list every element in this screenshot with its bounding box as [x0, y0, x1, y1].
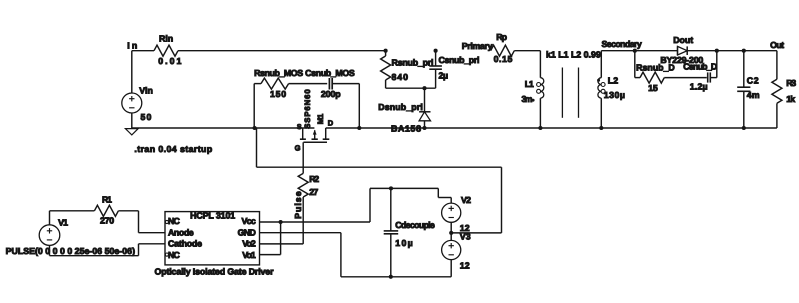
- wire Csnub_D to return leg: [711, 77, 717, 79]
- svg-text:V3: V3: [460, 231, 471, 241]
- svg-text:150: 150: [270, 89, 286, 99]
- junction dot snubber/ground rail: [253, 126, 257, 130]
- wire Vcc riser: [370, 188, 438, 222]
- junction dot Dsnub_pri at rail: [422, 126, 426, 130]
- resistor Rsnub_D: [635, 62, 675, 93]
- resistor Rin: [154, 34, 181, 67]
- svg-text:S: S: [297, 124, 302, 131]
- svg-text:V1: V1: [58, 218, 68, 228]
- junction dot Csnub_pri top: [434, 49, 438, 53]
- transformer core: [562, 68, 578, 118]
- svg-text:R2: R2: [309, 174, 319, 184]
- junction dot snubD left: [633, 49, 637, 53]
- pin Anode: [168, 227, 194, 237]
- wire Rin to primary snubber node: [178, 50, 386, 52]
- svg-text:Cathode: Cathode: [168, 239, 202, 249]
- svg-text:Csnub_MOS: Csnub_MOS: [305, 68, 355, 78]
- voltage source V3: [442, 231, 471, 276]
- wire Vo1 tie: [260, 222, 281, 255]
- svg-text:In: In: [127, 41, 137, 51]
- junction dot snubD right: [715, 49, 719, 53]
- wire rail down-leg: [256, 128, 258, 167]
- pin Vo1: [242, 250, 256, 260]
- svg-text:Vo2: Vo2: [242, 239, 256, 249]
- junction dot Rsnub_pri top: [384, 49, 388, 53]
- wire clamp bottom: [386, 87, 436, 89]
- inductor L2: [597, 75, 625, 100]
- wire bottom rail left (source side): [132, 127, 315, 129]
- wire snubD right leg: [716, 51, 718, 78]
- svg-text:Vcc: Vcc: [242, 216, 256, 226]
- wire GND run: [260, 233, 341, 277]
- junction dot Cdecouple bottom: [389, 275, 393, 279]
- svg-text:2µ: 2µ: [439, 71, 449, 81]
- junction dot C2 bottom: [742, 126, 746, 130]
- wire long mid reference: [257, 166, 502, 168]
- svg-text:Cdecouple: Cdecouple: [395, 220, 435, 230]
- voltage source V1: [39, 218, 68, 246]
- wire Vcc jog to V2: [438, 188, 451, 197]
- wire Vin top to Rin: [132, 50, 154, 52]
- svg-text:0.15: 0.15: [494, 54, 513, 64]
- svg-text:SSP6N60: SSP6N60: [303, 89, 312, 129]
- capacitor Cdecouple: [384, 188, 435, 276]
- svg-text:Csnub_pri: Csnub_pri: [439, 55, 480, 65]
- capacitor C2: [737, 51, 760, 128]
- wire driver bottom rail: [341, 276, 451, 278]
- pin Vo2: [242, 239, 256, 249]
- svg-text:Rsnub_MOS: Rsnub_MOS: [254, 68, 303, 78]
- wire Rsnub_MOS to Csnub_MOS: [289, 83, 328, 85]
- wire V1 bottom stub: [49, 245, 51, 255]
- wire V1 top to R1: [50, 210, 95, 212]
- pin Vcc: [242, 216, 256, 226]
- wire gate lead: [302, 142, 304, 173]
- caption optically isolated gate driver: [155, 266, 275, 276]
- wire V1 to Cathode: [50, 244, 166, 256]
- svg-text:Rin: Rin: [159, 34, 173, 44]
- svg-text:12: 12: [460, 260, 470, 270]
- diode Dsnub_pri BA158: [378, 88, 430, 133]
- svg-text:Vin: Vin: [139, 85, 153, 95]
- svg-text:270: 270: [100, 216, 114, 226]
- node Secondary label: [602, 39, 642, 49]
- svg-text:NC: NC: [168, 250, 180, 260]
- resistor Rsnub_MOS: [254, 68, 303, 99]
- svg-text:k1 L1 L2 0.99: k1 L1 L2 0.99: [546, 50, 601, 60]
- wire Rsnub_D to Csnub_D: [664, 77, 707, 79]
- pin Cathode: [168, 239, 202, 249]
- inductor L1: [522, 78, 544, 104]
- diode Dout BY229-200: [660, 35, 703, 65]
- node Out label: [770, 40, 784, 50]
- svg-text:3m: 3m: [522, 94, 533, 104]
- wire snubD left leg: [634, 51, 636, 78]
- junction dot L2 at rail: [599, 126, 603, 130]
- spice directive .tran: [134, 144, 212, 154]
- svg-text:Anode: Anode: [168, 227, 194, 237]
- voltage source Vin: [122, 85, 153, 122]
- svg-text:HCPL 3101: HCPL 3101: [190, 210, 235, 220]
- svg-text:Secondary: Secondary: [602, 39, 642, 49]
- svg-text:Rp: Rp: [496, 32, 507, 42]
- wire snubber left leg: [253, 84, 255, 128]
- svg-text:Out: Out: [770, 40, 784, 50]
- svg-text:PULSE(0 0 0 0 0 25e-06 50e-06): PULSE(0 0 0 0 0 25e-06 50e-06): [6, 246, 135, 256]
- svg-text:Rsnub_D: Rsnub_D: [636, 62, 675, 72]
- op-amp U1 HCPL 3101 box: [165, 210, 260, 265]
- pin GND: [238, 227, 256, 237]
- wire Csnub_MOS to drain leg: [333, 83, 359, 85]
- svg-text:Csnub_D: Csnub_D: [683, 61, 717, 71]
- svg-text:50: 50: [141, 112, 152, 122]
- wire L2 bottom: [600, 98, 602, 128]
- value text PULSE: [6, 246, 135, 256]
- svg-text:D: D: [328, 119, 334, 128]
- wire L2 top: [600, 51, 602, 78]
- svg-text:130µ: 130µ: [604, 90, 625, 100]
- voltage source V2: [442, 195, 471, 233]
- capacitor Csnub_MOS: [305, 68, 355, 99]
- resistor R2: [298, 173, 319, 197]
- wire Vcc rail: [260, 221, 371, 223]
- svg-text:1k: 1k: [786, 94, 795, 104]
- junction dot clamp diode top: [422, 86, 426, 90]
- svg-text:15: 15: [648, 83, 658, 93]
- net label Pulse: [293, 191, 303, 219]
- svg-text:Vo1: Vo1: [242, 250, 256, 260]
- node Primary label: [462, 41, 493, 51]
- svg-text:Dout: Dout: [673, 35, 693, 45]
- junction dot V2 V3 midpoint: [449, 231, 453, 235]
- resistor R3: [772, 51, 796, 128]
- svg-text:Rsnub_pri: Rsnub_pri: [392, 58, 434, 68]
- svg-text:BA158: BA158: [391, 123, 421, 133]
- pin NC top: [165, 216, 180, 226]
- wire Dout cathode rail: [687, 50, 777, 52]
- resistor Rsnub_pri: [381, 51, 434, 88]
- svg-text:200p: 200p: [321, 89, 341, 99]
- junction dot Cdecouple top: [389, 186, 393, 190]
- capacitor Csnub_D: [683, 61, 717, 91]
- node In label: [127, 41, 137, 51]
- svg-text:V2: V2: [461, 195, 471, 205]
- svg-text:.tran 0.04 startup: .tran 0.04 startup: [134, 144, 212, 154]
- resistor Rp: [491, 32, 515, 64]
- svg-text:NC: NC: [168, 216, 180, 226]
- wire Vin top stub: [131, 51, 133, 93]
- transistor M1 SSP6N60: [295, 89, 334, 153]
- svg-text:R3: R3: [786, 78, 796, 88]
- junction dot Vcc Vo1: [279, 220, 283, 224]
- svg-text:4m: 4m: [747, 90, 760, 100]
- wire R1 to Anode: [118, 211, 165, 233]
- junction dot L1 at rail: [538, 126, 542, 130]
- wire Rp to L1: [514, 51, 540, 78]
- svg-text:27: 27: [309, 187, 318, 197]
- svg-text:Optically Isolated Gate Driver: Optically Isolated Gate Driver: [155, 266, 275, 276]
- wire to V2 V3 midpoint: [451, 232, 501, 234]
- svg-text:1.2µ: 1.2µ: [690, 81, 708, 91]
- svg-text:L2: L2: [608, 75, 618, 85]
- capacitor Csnub_pri: [429, 51, 479, 88]
- svg-text:R1: R1: [102, 194, 112, 204]
- svg-text:M1: M1: [316, 113, 325, 124]
- wire snubber right leg: [358, 84, 360, 128]
- svg-text:0.01: 0.01: [158, 56, 181, 66]
- svg-text:Dsnub_pri: Dsnub_pri: [378, 102, 423, 112]
- svg-text:840: 840: [392, 72, 409, 82]
- junction dot C2 top: [742, 49, 746, 53]
- svg-text:Primary: Primary: [462, 41, 493, 51]
- wire Vin bottom stub: [131, 113, 133, 128]
- pin NC bottom: [165, 250, 180, 260]
- svg-text:10µ: 10µ: [395, 238, 412, 248]
- svg-text:Pulse: Pulse: [293, 191, 303, 219]
- ground: [125, 129, 138, 135]
- svg-text:C2: C2: [747, 76, 759, 86]
- wire Vo2 run: [260, 243, 304, 245]
- svg-text:L1: L1: [525, 79, 534, 89]
- wire bottom rail right (drain side): [326, 127, 777, 129]
- junction dot snubber right at rail: [357, 126, 361, 130]
- resistor R1: [94, 194, 118, 225]
- wire V1 top stub: [49, 211, 51, 225]
- wire R2 to Vo2: [302, 197, 304, 244]
- wire mid reference drop: [501, 167, 503, 233]
- svg-text:GND: GND: [238, 227, 256, 237]
- coupling text k1: [546, 50, 601, 60]
- svg-text:G: G: [295, 144, 301, 153]
- wire L1 bottom: [539, 98, 541, 128]
- wire secondary rail to Dout: [601, 50, 677, 52]
